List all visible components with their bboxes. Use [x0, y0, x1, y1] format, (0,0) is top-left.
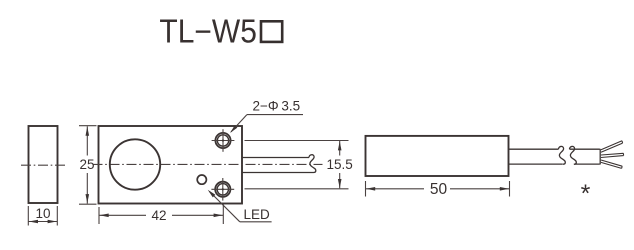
- dimension line 25: [86, 126, 90, 203]
- mounting hole bottom: [211, 178, 234, 201]
- cable break squiggle 2: [570, 146, 577, 164]
- svg-text:TL−W5: TL−W5: [159, 12, 257, 49]
- svg-text:15.5: 15.5: [327, 157, 353, 172]
- front cable break squiggle: [309, 155, 316, 173]
- wire middle: [601, 153, 624, 157]
- label 2-dia3.5 with leader: [230, 99, 303, 134]
- dim 42 extension lines: [99, 205, 223, 225]
- extension lines for 10 dim: [28, 206, 57, 226]
- right view cable left segment: [509, 149, 563, 164]
- dimension line 10: [28, 220, 57, 224]
- svg-text:50: 50: [430, 181, 448, 198]
- svg-text:LED: LED: [244, 207, 271, 222]
- svg-text:10: 10: [35, 206, 50, 221]
- svg-text:42: 42: [151, 208, 166, 223]
- LED indicator circle: [197, 175, 206, 184]
- right side view outline: [366, 136, 509, 176]
- title TL-W5: [159, 12, 282, 49]
- wire bottom: [601, 160, 622, 168]
- LED label with leader: [208, 190, 272, 222]
- left side view outline: [29, 126, 58, 203]
- svg-text:25: 25: [79, 157, 94, 172]
- dim 15.5 extension lines: [245, 141, 349, 189]
- cable break squiggle 1: [559, 146, 566, 164]
- svg-text:*: *: [581, 180, 591, 208]
- dimension line 42: [99, 214, 223, 218]
- right view cable right segment with end cap: [570, 149, 601, 165]
- dim 50 extension lines: [366, 181, 510, 197]
- svg-text:2−Φ 3.5: 2−Φ 3.5: [253, 99, 301, 114]
- left view centerline: [21, 164, 65, 166]
- mounting hole top: [212, 129, 235, 152]
- dim 25 extension ticks: [79, 126, 97, 205]
- dimension line 15.5: [338, 141, 342, 188]
- wire top: [601, 141, 623, 152]
- dimension line 50: [366, 187, 510, 191]
- front view outline: [99, 126, 243, 204]
- front view cable: [242, 158, 314, 173]
- front view horizontal centerline: [93, 163, 323, 165]
- sensing face circle: [110, 139, 160, 189]
